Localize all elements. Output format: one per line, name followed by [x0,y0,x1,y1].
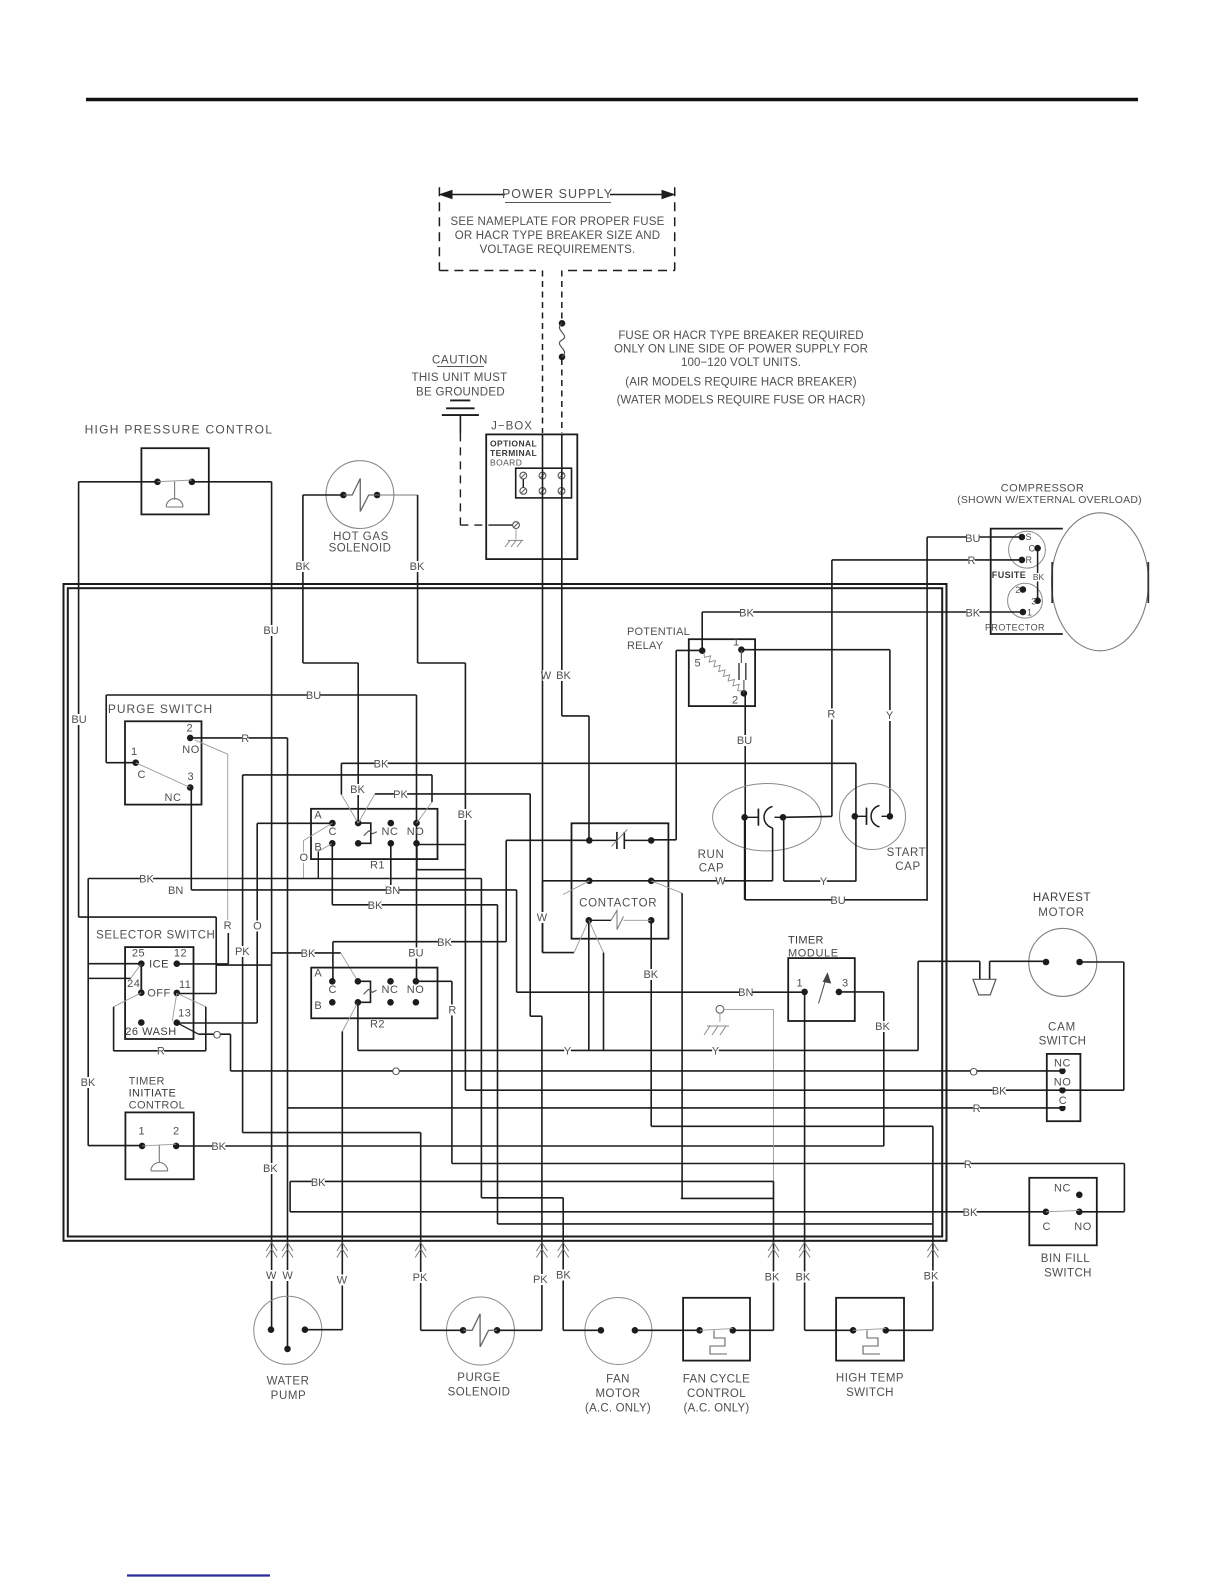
svg-text:HARVEST: HARVEST [1033,892,1091,904]
svg-text:SOLENOID: SOLENOID [329,543,392,555]
timer module terminals [801,989,842,996]
wire BN purge switch 3 [190,788,191,890]
wire BN bus to timer [517,991,805,993]
cam switch box [1047,1054,1081,1121]
label BU link [830,895,845,907]
high pressure control switch [141,448,208,514]
svg-text:CONTROL: CONTROL [687,1388,746,1400]
svg-text:BK: BK [556,670,571,682]
wire R selector bottom [114,1007,206,1051]
top rule [86,98,1138,102]
relay R1 box [311,809,438,859]
svg-text:R: R [241,733,249,745]
wire BU bottom link [745,899,927,901]
relay R2 box [311,968,437,1019]
label OPTIONAL TERMINAL BOARD [490,439,537,468]
selector terminals [138,960,180,1026]
label POWER SUPPLY [502,187,613,203]
wire BK power line [562,434,589,840]
selector pin labels [125,948,191,1039]
svg-text:POTENTIAL: POTENTIAL [627,626,690,638]
compressor terminal labels [1015,532,1036,618]
label BK contactor [643,969,658,981]
wire R R2 NO [416,981,452,1163]
run cap ellipse [713,784,822,851]
label BK zigzag [311,1177,326,1189]
label R selector [157,1046,165,1058]
wire W bus contactor [543,880,773,882]
cam switch terminals [1059,1068,1066,1112]
power supply feed dashed wires [543,271,562,434]
wire BK ICE bus [88,879,481,1198]
svg-text:BK: BK [81,1077,96,1089]
svg-text:BN: BN [168,885,183,897]
label COMPRESSOR [957,483,1142,507]
main enclosure border [64,584,947,1241]
bottom wire labels [266,1270,939,1287]
label PK selector [235,946,250,958]
label RUN CAP [698,849,725,875]
svg-text:1: 1 [138,1126,144,1138]
compressor terminal box [991,529,1063,634]
svg-text:CAM: CAM [1048,1022,1076,1034]
wire BK hightemp link [498,1223,933,1225]
label BU left [71,714,86,726]
label BK internal [1033,572,1045,582]
label O r1a [253,921,262,933]
strain reliefs [266,1243,938,1258]
selector switch box [125,947,193,1039]
label BK763 [374,759,389,771]
svg-text:BOARD: BOARD [490,458,522,468]
svg-text:NC: NC [1054,1183,1071,1195]
svg-text:BU: BU [737,735,752,747]
svg-text:5: 5 [694,658,700,670]
wire W R2 coil bottom [342,1002,358,1329]
label Y caplink [820,876,828,888]
svg-text:BK: BK [437,937,452,949]
wire O bus [231,1070,1063,1072]
svg-text:R: R [968,555,976,567]
svg-text:C: C [1043,1221,1051,1233]
svg-text:PK: PK [235,946,250,958]
svg-text:BK: BK [311,1177,326,1189]
wire Y cap link [784,880,857,882]
label W bracket [537,912,548,924]
wire BK binfill bus [290,1211,1046,1213]
bin fill switch box [1029,1178,1097,1246]
svg-text:R: R [448,1005,456,1017]
svg-text:3: 3 [842,978,848,990]
svg-text:100−120 VOLT UNITS.: 100−120 VOLT UNITS. [681,357,801,369]
svg-text:25: 25 [132,948,145,960]
svg-text:SWITCH: SWITCH [1044,1268,1092,1280]
cam switch labels [1054,1058,1072,1108]
svg-text:R: R [973,1103,981,1115]
potential relay terminals [699,646,747,696]
svg-text:C: C [329,984,337,996]
svg-text:R: R [964,1159,972,1171]
svg-text:CONTACTOR: CONTACTOR [579,898,657,910]
label O bus right [969,1066,978,1078]
purge switch terminals [132,735,193,791]
svg-text:O: O [300,852,309,864]
svg-text:Y: Y [712,1046,720,1058]
svg-text:START: START [887,847,927,859]
svg-text:11: 11 [179,979,191,991]
wire R to selector 12 [177,933,229,964]
svg-text:VOLTAGE REQUIREMENTS.: VOLTAGE REQUIREMENTS. [480,244,636,256]
selector outer wire [79,917,272,993]
wire contactor bottom left to Y bus [589,920,604,1050]
svg-text:R: R [827,709,835,721]
label R binfill [964,1159,972,1171]
fuse F1 [559,320,566,360]
label R start cap wire [827,709,835,721]
svg-text:2: 2 [1015,585,1020,595]
svg-text:BK: BK [368,900,383,912]
svg-text:3: 3 [187,771,193,783]
wire BK potential relay 5 top [701,612,703,651]
svg-text:A: A [314,968,322,980]
svg-text:O: O [969,1066,978,1078]
contactor contact row [586,911,655,930]
svg-text:BE GROUNDED: BE GROUNDED [416,387,505,399]
wire hot gas left BK [303,495,358,823]
wire high pressure control right [192,482,272,1330]
wire BU compressor [927,537,1022,901]
label BK relay5 [739,608,754,620]
svg-text:INITIATE: INITIATE [129,1088,177,1100]
svg-text:W: W [282,1270,293,1282]
svg-text:FUSITE: FUSITE [992,570,1026,580]
svg-text:BK: BK [410,561,425,573]
start cap symbol [852,806,894,827]
power supply note text [451,216,665,256]
label WATER PUMP [267,1376,310,1403]
wire start cap left riser [855,763,857,881]
label BK tic [211,1141,226,1153]
svg-text:POWER SUPPLY: POWER SUPPLY [502,187,613,201]
svg-text:FAN CYCLE: FAN CYCLE [683,1374,751,1386]
fan cycle contacts [696,1327,736,1354]
harvest motor [1029,928,1097,996]
relay R2 coil [358,981,377,1002]
svg-text:FAN: FAN [606,1374,630,1386]
wire timer 1 down BK [804,992,806,1330]
svg-text:O: O [392,1066,401,1078]
terminal screws [520,472,565,494]
label BK coil riser [350,784,365,796]
label HIGH TEMP SWITCH [836,1373,904,1400]
svg-text:BK: BK [350,784,365,796]
wire R binfill bus [452,1164,1125,1212]
svg-text:SWITCH: SWITCH [1039,1036,1087,1048]
svg-text:BK: BK [875,1021,890,1033]
svg-text:SEE NAMEPLATE FOR PROPER FUSE: SEE NAMEPLATE FOR PROPER FUSE [451,216,665,228]
timer module box [788,958,855,1021]
svg-text:BU: BU [830,895,845,907]
svg-text:ICE: ICE [149,959,169,971]
svg-text:TERMINAL: TERMINAL [490,448,537,458]
wire BN R1 NC down [390,843,392,890]
purge solenoid [447,1297,515,1365]
start cap circle [840,784,906,850]
svg-text:HIGH PRESSURE CONTROL: HIGH PRESSURE CONTROL [85,423,274,437]
high temp contacts [850,1327,889,1354]
svg-text:S: S [1025,532,1031,542]
wire PK top loop [243,775,432,1133]
svg-text:Y: Y [820,876,828,888]
water pump [254,1296,322,1364]
svg-text:BK: BK [963,1207,978,1219]
svg-text:(AIR MODELS REQUIRE HACR BREAK: (AIR MODELS REQUIRE HACR BREAKER) [625,377,856,389]
wire BU potential relay 2 [744,693,745,900]
fusite circle [1009,531,1046,568]
fan motor [585,1298,652,1365]
purge switch 2 thin leader R [195,740,228,920]
wire run cap left BU [744,817,746,900]
wire BK TIC left [88,1145,142,1147]
wire bin fill NO [1079,1211,1124,1213]
label PURGE SOLENOID [448,1372,511,1399]
label W BK power [541,670,572,682]
label BK hot gas left [295,561,310,573]
svg-text:2: 2 [173,1126,179,1138]
wire R1 NO bottom stub [417,843,466,869]
selector blade 25-24 [140,964,142,993]
svg-text:COMPRESSOR: COMPRESSOR [1001,483,1084,495]
wire BK bus cam [465,1089,1123,1091]
wire potential relay 5 left [651,650,702,839]
footer blue line [127,1574,270,1576]
svg-text:BK: BK [643,969,658,981]
wire BK763 contactor-startcap [341,763,856,823]
label POTENTIAL RELAY [627,626,690,652]
svg-text:BU: BU [263,625,278,637]
svg-text:NC: NC [165,792,182,804]
label O leader [300,852,309,864]
wire BK zigzag ground link [290,1181,773,1330]
label BK r2coil [301,948,316,960]
label O bus mid [392,1066,401,1078]
svg-text:BU: BU [306,690,321,702]
svg-text:W: W [266,1270,277,1282]
label BK binfill [963,1207,978,1219]
svg-text:BN: BN [385,885,400,897]
svg-text:26 WASH: 26 WASH [125,1026,176,1038]
wire harvest feed [918,961,1046,979]
wire high temp leads [805,1329,933,1331]
svg-text:R: R [157,1046,165,1058]
svg-text:TIMER: TIMER [129,1076,165,1088]
svg-text:NC: NC [382,984,399,996]
hot gas solenoid [326,461,394,529]
wire harvest loop [1080,962,1124,1090]
label FUSITE [992,570,1026,580]
label BK hotgas riser2 [458,809,473,821]
svg-text:W: W [537,912,548,924]
svg-text:RUN: RUN [698,849,725,861]
svg-text:NO: NO [1054,1077,1072,1089]
label Y bus left [564,1046,572,1058]
svg-text:(SHOWN W/EXTERNAL OVERLOAD): (SHOWN W/EXTERNAL OVERLOAD) [957,494,1142,506]
wire PK R1 [358,794,542,1330]
svg-text:CAP: CAP [895,861,920,873]
svg-text:BU: BU [965,533,980,545]
label START CAP [887,847,927,873]
svg-text:1: 1 [1027,608,1032,618]
potential relay box [689,639,755,706]
svg-text:NO: NO [407,984,425,996]
svg-text:BK: BK [965,608,980,620]
wire O R1 A [257,823,332,1023]
label Y relay1 [886,710,894,722]
svg-text:PK: PK [533,1274,548,1286]
svg-text:PURGE: PURGE [457,1372,500,1384]
label BU compressor [965,533,980,545]
svg-text:Y: Y [564,1046,572,1058]
label BIN FILL SWITCH [1041,1253,1092,1280]
svg-text:13: 13 [178,1008,191,1020]
svg-text:2: 2 [732,695,738,707]
relay R2 labels [314,968,424,1031]
svg-text:BK: BK [796,1272,811,1284]
label PK R1 [393,789,408,801]
bin fill terminals [1043,1192,1083,1216]
svg-text:NO: NO [407,826,425,838]
timer module pin labels [796,978,848,990]
svg-text:12: 12 [174,948,187,960]
contactor box [572,823,669,938]
label BN timer [738,987,753,999]
svg-text:OPTIONAL: OPTIONAL [490,439,537,449]
wire BK TIC right bus [176,1145,884,1147]
wire BK R1 C down [331,843,333,905]
svg-text:W: W [541,670,552,682]
label BU r1 no [408,948,423,960]
svg-text:2: 2 [186,723,192,735]
wire Y bus [358,961,918,1050]
svg-text:Y: Y [886,710,894,722]
contactor mid leaders [563,881,682,1199]
wire fan motor leads [563,1329,699,1331]
wire fusite C to protector 3 [1037,548,1039,601]
contactor mid row [586,878,655,885]
svg-text:TIMER: TIMER [788,935,824,947]
label CAM SWITCH [1039,1022,1087,1048]
svg-text:BK: BK [301,948,316,960]
svg-text:W: W [715,876,726,888]
svg-text:CONTROL: CONTROL [129,1100,186,1112]
relay R2 terminals [329,978,419,1006]
bin fill labels [1043,1183,1092,1234]
label SELECTOR SWITCH [96,930,215,942]
label BU purge [306,690,321,702]
thin leader C to BK ICE riser [318,843,332,878]
high temp switch box [836,1298,904,1361]
run cap symbol [741,807,786,828]
wire R bus cam [288,1107,1063,1109]
svg-text:NC: NC [382,826,399,838]
svg-text:NO: NO [182,744,200,756]
wire run cap right down Y [783,817,785,881]
timer initiate control box [125,1112,193,1179]
svg-text:BK: BK [992,1086,1007,1098]
svg-text:WATER: WATER [267,1376,310,1388]
wire R compressor [832,560,1022,817]
svg-text:SOLENOID: SOLENOID [448,1387,511,1399]
label BK905 [368,900,383,912]
chassis ground terminal [716,1005,774,1181]
J-box ground screw [492,522,519,540]
label FAN CYCLE CONTROL [683,1374,751,1415]
svg-text:1: 1 [733,637,739,649]
svg-text:W: W [337,1275,348,1287]
svg-text:PK: PK [393,789,408,801]
wire purge solenoid leads [421,1329,542,1331]
timer initiate pin labels [138,1126,179,1138]
wire high pressure control left [79,482,158,917]
fuse note text [614,330,868,407]
svg-text:BN: BN [738,987,753,999]
label FAN MOTOR [585,1374,651,1415]
label HARVEST MOTOR [1033,892,1091,919]
svg-text:(A.C. ONLY): (A.C. ONLY) [684,1403,750,1415]
wire run cap arc to W [772,828,774,881]
terminal board [516,468,572,498]
svg-text:PK: PK [413,1272,428,1284]
svg-text:SELECTOR SWITCH: SELECTOR SWITCH [96,930,215,942]
wire Y potential relay 1 [741,650,890,817]
wire W bracket [543,881,589,953]
thin O leader from A [304,823,333,878]
timer module arrow [819,974,831,1004]
svg-text:R1: R1 [370,860,385,872]
wire fan cycle right [733,1329,774,1331]
relay R1 labels [314,810,424,872]
label CONTACTOR [579,897,657,909]
wire BU purge switch 1 [106,695,416,981]
label TIMER MODULE [788,935,839,960]
svg-text:BK: BK [458,809,473,821]
svg-text:FUSE OR HACR TYPE BREAKER REQU: FUSE OR HACR TYPE BREAKER REQUIRED [618,330,863,342]
label R cam [973,1103,981,1115]
svg-text:CAUTION: CAUTION [432,355,488,367]
label BU relay2 [737,735,752,747]
label PROTECTOR [985,623,1045,633]
svg-text:BK: BK [295,561,310,573]
wire R purge switch 2 [190,738,287,1349]
svg-text:HOT GAS: HOT GAS [333,531,389,543]
label BN left [168,885,183,897]
wire O selector 13 [177,1023,257,1071]
svg-text:BK: BK [739,608,754,620]
protector circle [1008,583,1043,618]
label BK timer3 [875,1021,890,1033]
label BK protector [965,608,980,620]
svg-text:BK: BK [1033,572,1045,582]
wire W power line [542,434,544,952]
svg-text:24: 24 [127,978,140,990]
svg-text:BK: BK [139,874,154,886]
compressor terminals [1019,534,1041,616]
svg-text:C: C [1059,1095,1067,1107]
svg-text:SWITCH: SWITCH [846,1387,894,1399]
power supply arrows [440,191,674,199]
compressor shell ellipse [1052,513,1149,651]
svg-text:ONLY ON LINE SIDE OF POWER SUP: ONLY ON LINE SIDE OF POWER SUPPLY FOR [614,344,868,356]
